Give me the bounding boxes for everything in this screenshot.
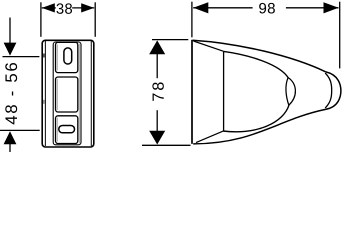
dimension 78 lower stem	[156, 110, 158, 131]
dimension 98 line left segment	[193, 7, 252, 9]
front view left edge detail blob upper	[43, 54, 45, 58]
dimension 98 line right segment	[286, 7, 339, 9]
front view left edge detail blob lower	[43, 100, 45, 104]
dimension 98 label	[259, 3, 275, 14]
side view nose ring inner arc	[325, 73, 332, 108]
dimension 38 right extension line	[94, 2, 96, 37]
front view bottom cell shadow	[56, 118, 58, 142]
side view outer bottom curve	[193, 109, 325, 143]
dimension 48-56 bottom stem	[9, 144, 11, 153]
dimension 38 right arrowhead	[81, 3, 94, 12]
dimension 48-56 top arrowhead (down)	[4, 43, 17, 56]
side view mouth upper curve	[224, 51, 289, 78]
dimension 48-56 top stem	[9, 18, 11, 44]
dimension 78 label (rotated)	[152, 82, 163, 100]
front view bottom cell	[56, 116, 78, 144]
dimension 98 left arrowhead	[193, 2, 208, 13]
dimension 48-56 bottom arrowhead (up)	[4, 131, 17, 144]
front view top slot (vertical oval)	[64, 48, 72, 64]
dimension 78 bottom arrowhead (down)	[149, 131, 165, 145]
front view right inner edge line	[90, 41, 92, 146]
side view outer top curve	[193, 40, 326, 72]
side view plate front edge	[223, 51, 225, 131]
dimension 48-56 bottom tick	[0, 129, 40, 131]
front view outer body	[42, 40, 94, 147]
dimension 98 right extension line	[339, 2, 341, 69]
dimension 38 line right segment	[72, 7, 94, 9]
dimension 38 left extension line	[40, 2, 42, 37]
front view top cell shadow	[56, 45, 58, 71]
dimension 38 left arrowhead	[42, 3, 55, 12]
front view left inner edge line	[44, 41, 46, 146]
dimension 78 bottom tick	[142, 144, 191, 146]
dimension 38 label	[56, 3, 72, 13]
side view mouth tip lens (vesica)	[286, 78, 295, 106]
side view mouth lower curve	[223, 105, 289, 131]
side view top chamfer	[193, 41, 223, 51]
front view middle cell	[56, 77, 78, 112]
dimension 98 right arrowhead	[324, 2, 339, 13]
side view wall line	[191, 40, 193, 144]
dimension 78 upper stem	[156, 54, 158, 79]
dimension 48-56 top tick	[3, 56, 40, 58]
front view raised panel outline	[53, 42, 81, 145]
front view bottom slot (horizontal oval)	[59, 126, 75, 133]
dimension 98 left extension line	[191, 2, 193, 38]
dimension 78 top arrowhead (up)	[149, 40, 165, 54]
dimension 38 line left segment	[42, 7, 56, 9]
front view middle cell shadow	[56, 79, 58, 110]
front view top cell	[56, 42, 78, 72]
dimension 48-56 label (rotated)	[5, 63, 17, 124]
side view bottom chamfer	[196, 131, 223, 142]
side view nose cap outer arc	[326, 72, 341, 110]
dimension 78 top tick	[152, 39, 188, 41]
front view panel shadow line right	[78, 44, 80, 144]
